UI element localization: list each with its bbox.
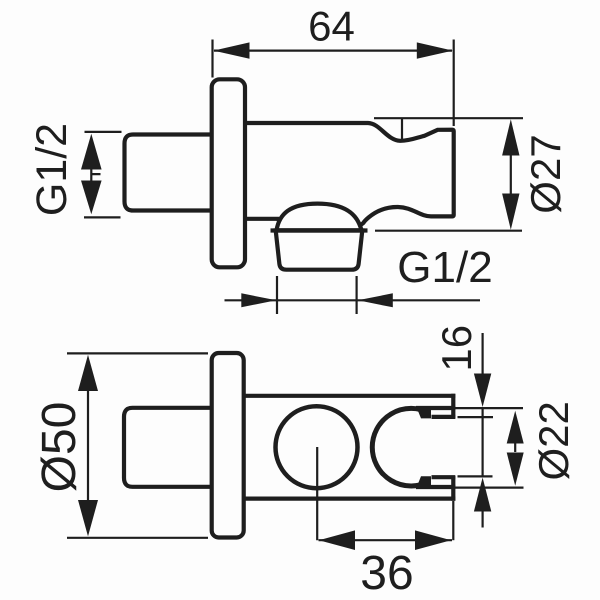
clamp arm slot lines top [416, 408, 455, 417]
wall flange (front view) [212, 353, 244, 538]
clamp arm solid ends [416, 406, 431, 418]
inlet pipe (front view) [124, 408, 215, 487]
dia27: extension lines [374, 118, 523, 231]
svg-text:16: 16 [433, 325, 480, 372]
dia50 shaft [87, 391, 89, 500]
16 dim shaft [482, 333, 484, 528]
body rectangle edges [242, 396, 455, 499]
G1/2 bottom: leader lines [225, 299, 481, 301]
G1/2 left arrows [81, 134, 102, 170]
clamp arm slot lines bottom [416, 477, 455, 487]
svg-text:Ø50: Ø50 [33, 402, 86, 493]
right edge bars [451, 394, 455, 501]
dia27: shaft [510, 152, 512, 196]
big circle [276, 406, 358, 488]
svg-text:Ø27: Ø27 [522, 134, 569, 213]
outlet dome [277, 204, 362, 231]
outlet nut (trapezoid) [276, 231, 363, 270]
16 arrows [474, 374, 491, 408]
wall flange (side view) [212, 79, 245, 267]
dim 64: extension lines [213, 40, 454, 127]
svg-text:64: 64 [308, 3, 355, 50]
svg-text:36: 36 [360, 547, 413, 600]
inlet pipe G1/2 (side view) [125, 135, 216, 211]
right edge extension down [452, 501, 454, 540]
dia50 extension lines [67, 353, 208, 537]
dia22 arrows [507, 411, 524, 444]
C clamp arc [372, 408, 429, 486]
G1/2 left: shaft + tick [91, 168, 100, 181]
36 dim line [319, 539, 453, 541]
G1/2 bottom arrows [241, 293, 276, 307]
svg-text:G1/2: G1/2 [28, 123, 76, 216]
svg-text:Ø22: Ø22 [530, 401, 577, 480]
G1/2 left: extension lines [84, 132, 122, 218]
16/dia22 extension lines right [455, 408, 524, 488]
G1/2 bottom: extension lines [277, 276, 357, 314]
circle centerline [316, 447, 318, 540]
svg-text:G1/2: G1/2 [397, 243, 492, 292]
dia22 shaft [514, 442, 516, 452]
dim 64: line [214, 49, 452, 51]
dia27 arrows [502, 119, 519, 155]
36 arrows [319, 530, 355, 550]
outlet nut top ledge [271, 228, 368, 232]
holder body profile (side view) [243, 123, 454, 226]
dia50 arrows [78, 355, 98, 391]
dim 64: arrows [214, 42, 250, 58]
